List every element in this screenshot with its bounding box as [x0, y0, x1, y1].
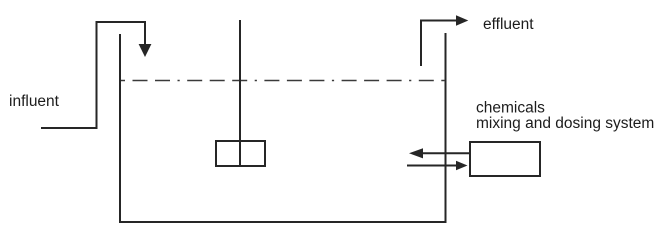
effluent arrowhead	[456, 15, 468, 25]
tank (left wall, bottom, right wall)	[120, 33, 446, 222]
return arrow into dosing box (right-pointing)	[407, 165, 456, 167]
water level dash-dot line	[121, 80, 445, 82]
mixer shaft	[239, 20, 241, 166]
influent arrowhead	[139, 44, 152, 57]
svg-text:mixing and dosing system: mixing and dosing system	[476, 115, 654, 132]
dosing arrow into tank (left-pointing)	[423, 152, 470, 154]
chemicals dosing box	[470, 142, 540, 176]
svg-text:effluent: effluent	[483, 16, 534, 33]
effluent pipe	[421, 21, 456, 67]
svg-text:influent: influent	[9, 93, 60, 110]
influent pipe	[41, 22, 145, 128]
mixer paddle box	[216, 141, 265, 166]
